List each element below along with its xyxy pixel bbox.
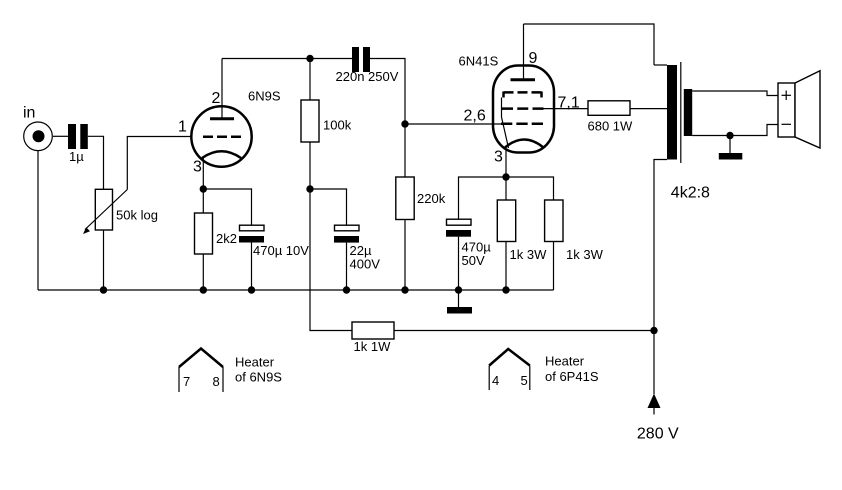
potentiometer 50k log body xyxy=(95,189,112,230)
heater symbol of U1 xyxy=(179,349,223,393)
input jack xyxy=(24,122,53,151)
svg-text:280 V: 280 V xyxy=(637,426,679,443)
junction C4 ground xyxy=(343,286,350,293)
U1 cathode arc xyxy=(202,151,241,158)
svg-text:400V: 400V xyxy=(350,257,381,272)
junction node supply decoupling xyxy=(306,185,313,192)
resistor R6a 1k 3W xyxy=(497,177,515,290)
U2 screen grid row xyxy=(502,107,544,110)
svg-text:50k log: 50k log xyxy=(116,208,158,223)
U2 cathode lead wire xyxy=(505,150,507,178)
wire R5 to transformer xyxy=(630,108,667,110)
junction node plate rail / R2 xyxy=(306,55,313,62)
wire C1 to pot top xyxy=(88,136,104,189)
svg-text:7: 7 xyxy=(183,374,190,389)
svg-text:1k 3W: 1k 3W xyxy=(510,247,548,262)
transformer T1 core xyxy=(680,62,682,163)
resistor R3 2k2 xyxy=(195,189,213,290)
junction C3 ground xyxy=(248,286,255,293)
wire primary bottom to B+ xyxy=(654,160,667,395)
svg-text:1k 3W: 1k 3W xyxy=(566,247,604,262)
heater symbol of U2 xyxy=(489,349,530,390)
resistor R2 100k xyxy=(301,59,319,190)
junction 2k2 ground xyxy=(200,286,207,293)
svg-text:Heater: Heater xyxy=(545,354,585,369)
U1 anode plate xyxy=(210,117,234,120)
capacitor C5 470µ 50V xyxy=(446,219,471,290)
U2 beam plate to cathode tie xyxy=(502,98,509,149)
junction R6a ground xyxy=(502,286,509,293)
wire cathode rail xyxy=(459,177,554,219)
U2 control grid row xyxy=(501,123,543,126)
wire cathode node to C3 xyxy=(203,189,251,225)
resistor R7 1k 1W xyxy=(352,322,394,339)
svg-text:100k: 100k xyxy=(323,118,352,133)
svg-text:2,6: 2,6 xyxy=(464,108,486,125)
svg-text:6N9S: 6N9S xyxy=(248,89,281,104)
svg-text:9: 9 xyxy=(529,50,538,67)
280V supply arrow xyxy=(648,394,661,415)
svg-text:in: in xyxy=(23,105,35,122)
svg-text:1k 1W: 1k 1W xyxy=(354,339,392,354)
resistor R5 680 1W xyxy=(588,101,630,116)
junction node U2 cathode rail xyxy=(502,173,509,180)
svg-text:4: 4 xyxy=(492,373,499,388)
capacitor C2 220n xyxy=(352,47,370,72)
wire decoupling node down to R7 rail xyxy=(310,189,352,331)
speaker minus terminal xyxy=(782,123,792,125)
capacitor C3 470µ 10V xyxy=(239,225,264,290)
bus junction dots xyxy=(100,286,510,293)
wire grid node to U2 grid xyxy=(405,123,501,125)
junction pot ground xyxy=(100,286,107,293)
U2 anode lead wire xyxy=(523,24,525,80)
wire C2 to grid node of U2 xyxy=(370,59,405,178)
wire U2 plate top rail xyxy=(524,24,655,65)
wire secondary top to speaker xyxy=(692,91,778,96)
svg-text:6N41S: 6N41S xyxy=(459,54,499,69)
U2 beam plates row xyxy=(504,92,542,98)
resistor R4 220k xyxy=(396,177,414,290)
ground symbol speaker return xyxy=(719,136,743,160)
svg-text:3: 3 xyxy=(494,149,503,166)
ground bus wire xyxy=(38,289,554,291)
capacitor C4 22µ 400V xyxy=(334,225,359,290)
junction node grid of U2 xyxy=(401,120,408,127)
wire screen to R5 xyxy=(544,108,589,110)
junction node U1 cathode xyxy=(200,185,207,192)
svg-text:1: 1 xyxy=(178,119,187,136)
svg-text:220k: 220k xyxy=(417,191,446,206)
svg-text:470µ 10V: 470µ 10V xyxy=(253,243,309,258)
svg-text:2k2: 2k2 xyxy=(216,231,237,246)
svg-text:220n 250V: 220n 250V xyxy=(336,69,399,84)
U2 anode plate xyxy=(511,78,536,81)
capacitor C1 1u xyxy=(68,124,88,149)
svg-text:680 1W: 680 1W xyxy=(588,119,634,134)
junction C5 ground xyxy=(455,286,462,293)
wire R7 to B+ line xyxy=(394,330,654,332)
ground symbol below C5 xyxy=(447,290,472,314)
svg-text:50V: 50V xyxy=(462,253,485,268)
U1 grid dashes xyxy=(203,136,241,139)
junction node B+ / R7 xyxy=(650,327,657,334)
svg-text:3: 3 xyxy=(193,159,202,176)
wire U1 plate rail to C2 xyxy=(222,58,352,60)
svg-text:of 6P41S: of 6P41S xyxy=(545,369,599,384)
wire jack sleeve to ground bus xyxy=(37,151,39,290)
svg-text:Heater: Heater xyxy=(235,355,275,370)
svg-text:8: 8 xyxy=(213,374,220,389)
svg-text:4k2:8: 4k2:8 xyxy=(671,185,710,202)
wire node to C4 top xyxy=(310,189,347,225)
svg-text:2: 2 xyxy=(212,90,221,107)
transformer T1 primary winding xyxy=(667,65,677,160)
potentiometer wiper arrow xyxy=(83,190,127,235)
wire wiper to grid of U1 xyxy=(127,137,192,190)
U1 cathode lead wire xyxy=(202,158,204,189)
svg-text:of 6N9S: of 6N9S xyxy=(235,370,282,385)
wire jack to C1 xyxy=(53,135,68,137)
tube U1 6N9S envelope xyxy=(191,106,251,166)
junction node speaker return xyxy=(726,132,733,139)
svg-text:1µ: 1µ xyxy=(69,149,84,164)
label Heater of 6N9S xyxy=(235,355,282,385)
wire pot bottom to ground bus xyxy=(103,230,105,290)
label Heater of 6P41S xyxy=(545,354,599,385)
wire primary top xyxy=(654,64,667,66)
U2 cathode arc xyxy=(505,140,544,148)
wire secondary bottom to speaker xyxy=(692,125,778,136)
junction 220k ground xyxy=(401,286,408,293)
transformer T1 secondary winding xyxy=(684,89,692,136)
tube U2 6N41S envelope xyxy=(493,66,554,153)
resistor R6b 1k 3W xyxy=(545,200,563,290)
svg-text:5: 5 xyxy=(521,373,528,388)
U1 anode lead wire xyxy=(221,59,223,119)
speaker plus terminal xyxy=(782,91,792,101)
speaker LS1 xyxy=(778,71,820,148)
